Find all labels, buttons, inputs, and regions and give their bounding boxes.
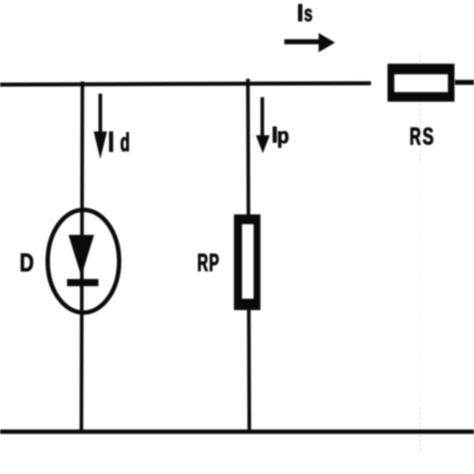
resistor RP body: [234, 214, 261, 310]
label RS: [411, 128, 433, 145]
dashed reference line through RS: [419, 55, 421, 160]
diode D: anode triangle: [69, 235, 95, 276]
label D: [21, 254, 33, 272]
diode D: circle: [48, 210, 119, 313]
wire: bottom bus: [0, 430, 474, 434]
current arrow Is: [284, 39, 321, 44]
diode D: cathode bar: [67, 279, 98, 286]
wire: top bus right segment: [455, 80, 474, 85]
label Id: [109, 132, 128, 152]
wire: left branch (through diode D): [81, 82, 82, 433]
label Is: [298, 4, 312, 21]
current arrow Id: [99, 94, 103, 140]
wire: top bus left segment: [0, 83, 371, 84]
label Ip: [273, 127, 288, 148]
wire: middle branch (through RP): [248, 79, 249, 432]
resistor RS body: [388, 64, 455, 102]
label RP: [198, 254, 218, 271]
current arrow Ip: [260, 97, 264, 140]
